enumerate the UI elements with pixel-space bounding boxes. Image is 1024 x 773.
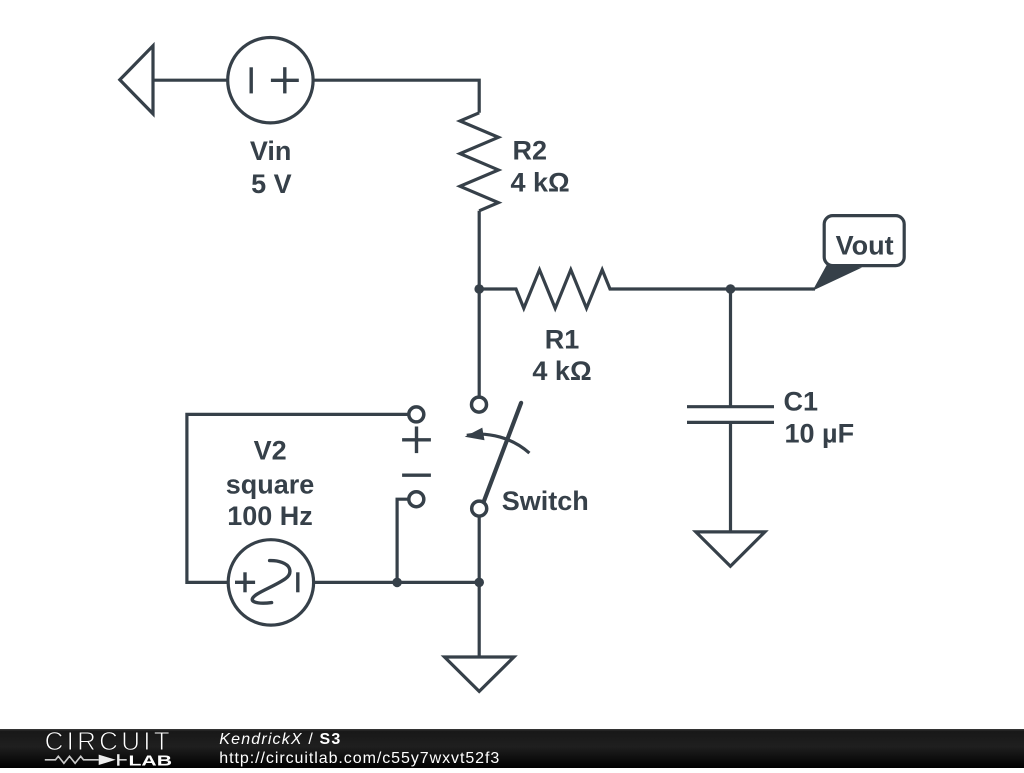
svg-text:C1: C1 [784,387,819,417]
wire V2 to bottom rail [314,581,480,584]
plus marker [402,427,431,454]
wire flag to Vin source [153,79,228,82]
voltage source V2 [228,540,313,625]
resistor R1 [479,270,730,308]
svg-text:Switch: Switch [502,486,589,516]
wire C1 to ground [729,422,732,531]
svg-text:Vout: Vout [836,231,894,261]
ground (below switch rail) [445,657,514,691]
wire node to C1 [729,289,732,407]
wire V2 loop (top and left) [187,414,408,582]
svg-text:Vin: Vin [250,136,292,166]
svg-text:R2: R2 [513,136,548,166]
voltage source Vin [228,37,313,122]
svg-text:10 µF: 10 µF [785,419,855,449]
ground (below C1) [696,532,765,566]
svg-text:KendrickX / S3: KendrickX / S3 [219,731,340,748]
wire Vin to R2 [313,80,479,113]
node junction R1/C1/Vout [726,284,736,294]
node junction R2/R1/switch [474,284,484,294]
terminal (V2 +) [409,407,424,422]
svg-text:5 V: 5 V [251,169,292,199]
svg-text:LAB: LAB [129,753,173,769]
switch SW1 [465,397,530,516]
svg-text:100 Hz: 100 Hz [227,501,313,531]
input flag arrow (net Vin) [120,46,153,114]
svg-text:V2: V2 [254,436,287,466]
minus marker [402,474,431,477]
wire R2 to node [478,211,481,289]
wire switch bottom terminal to node [478,516,481,582]
terminal (V2 -) [409,492,424,507]
net flag Vout [813,216,905,291]
svg-text:R1: R1 [545,325,580,355]
resistor R2 [460,113,498,211]
svg-text:4 kΩ: 4 kΩ [532,356,591,386]
svg-text:http://circuitlab.com/c55y7wxv: http://circuitlab.com/c55y7wxvt52f3 [219,750,499,767]
svg-text:4 kΩ: 4 kΩ [511,168,570,198]
wire node to switch top terminal [478,289,481,397]
CircuitLab logo resistor-diode symbol [45,754,127,766]
wire to ground [478,582,481,656]
capacitor C1 [687,407,774,423]
node junction on bottom rail [392,578,402,588]
wire terminal to bottom rail [397,499,408,582]
svg-text:square: square [226,469,315,499]
node junction bottom rail / ground [474,578,484,588]
wire node to Vout flag [731,287,816,290]
